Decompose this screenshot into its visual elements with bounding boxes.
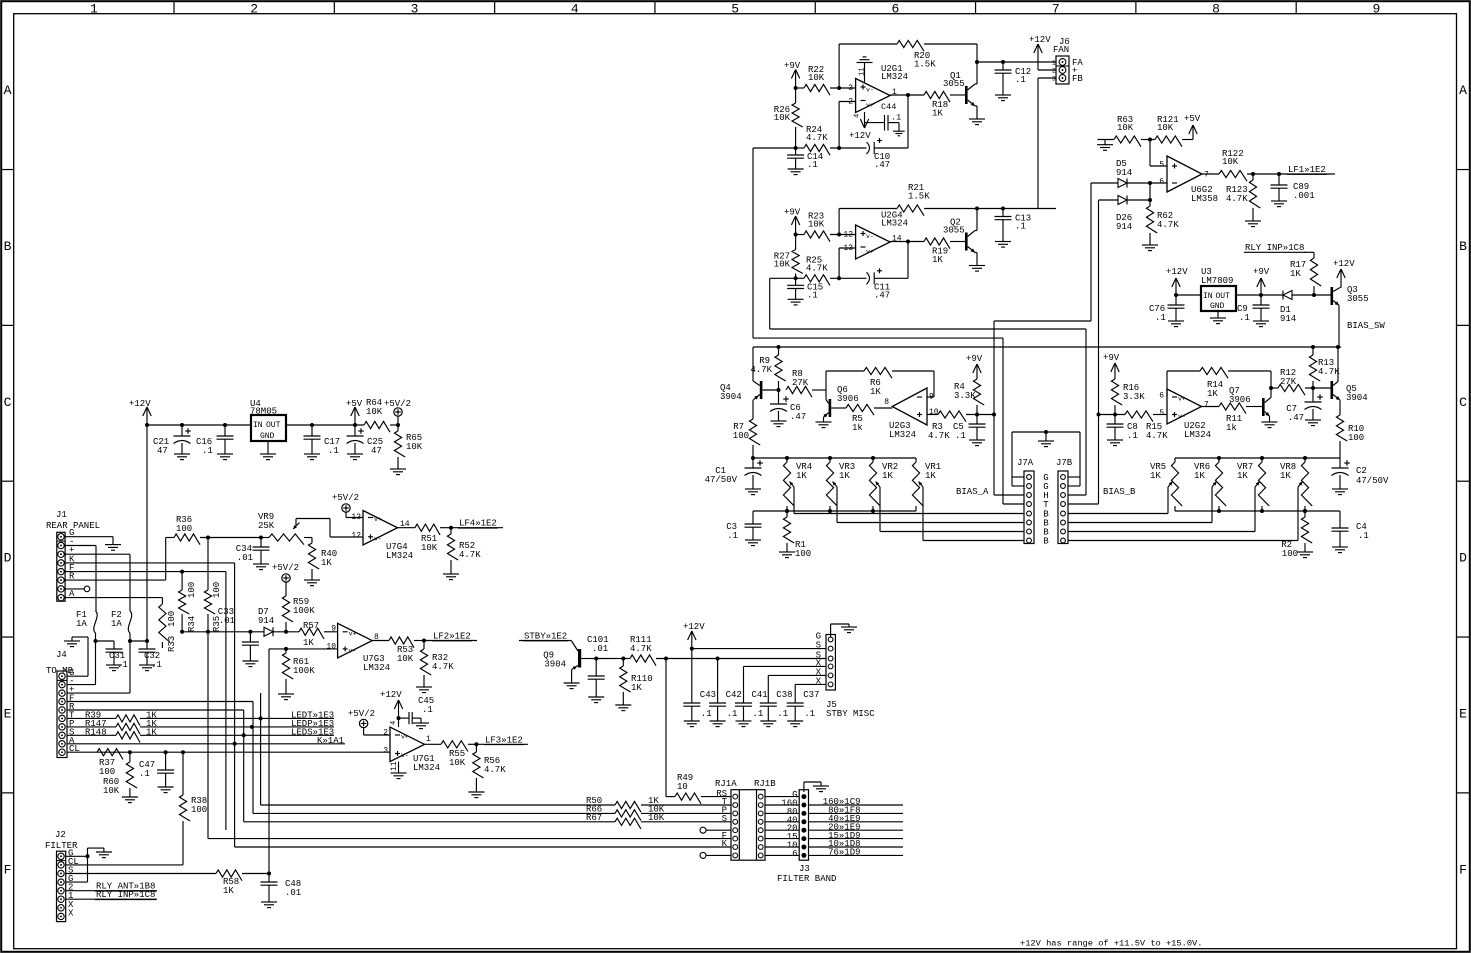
svg-text:+12V: +12V [849,131,871,141]
svg-text:47/50V: 47/50V [1356,476,1389,486]
svg-text:100: 100 [176,524,192,534]
svg-text:.1: .1 [1155,313,1166,323]
svg-text:5: 5 [1159,409,1164,418]
svg-text:12: 12 [351,532,361,541]
svg-text:3055: 3055 [943,226,965,236]
svg-text:47/50V: 47/50V [705,475,738,485]
svg-text:.1: .1 [727,531,738,541]
svg-text:J7A: J7A [1017,458,1034,468]
svg-text:78M05: 78M05 [250,407,277,417]
svg-text:100: 100 [1282,549,1298,559]
svg-text:914: 914 [1280,314,1296,324]
svg-text:1K: 1K [1150,471,1161,481]
svg-text:10K: 10K [397,654,414,664]
svg-text:.1: .1 [202,446,213,456]
svg-text:1K: 1K [1207,389,1218,399]
svg-text:3.3K: 3.3K [954,391,976,401]
svg-text:6: 6 [892,1,900,16]
svg-text:100K: 100K [293,666,315,676]
svg-text:.01: .01 [592,644,608,654]
svg-text:25K: 25K [258,521,275,531]
svg-text:+9V: +9V [966,354,983,364]
svg-text:K»1A1: K»1A1 [317,736,344,746]
svg-text:STBY MISC: STBY MISC [826,709,875,719]
svg-text:+12V: +12V [1029,35,1051,45]
svg-text:C2: C2 [1356,466,1367,476]
svg-text:.1: .1 [777,709,788,719]
svg-text:v-: v- [866,87,874,94]
svg-text:1K: 1K [631,683,642,693]
svg-text:10K: 10K [808,220,825,230]
svg-text:J7B: J7B [1056,458,1073,468]
svg-text:.47: .47 [874,160,890,170]
svg-text:1A: 1A [76,619,87,629]
svg-text:3906: 3906 [837,394,859,404]
svg-text:1: 1 [426,735,431,744]
svg-text:+5V/2: +5V/2 [348,709,375,719]
svg-text:R33: R33 [167,636,177,652]
svg-text:1K: 1K [870,387,881,397]
svg-text:10K: 10K [366,407,383,417]
svg-text:4: 4 [390,721,398,725]
svg-text:.1: .1 [727,709,738,719]
svg-text:B: B [1459,239,1467,254]
svg-text:4.7K: 4.7K [1146,431,1168,441]
svg-text:IN: IN [253,421,263,430]
svg-text:10K: 10K [1222,157,1239,167]
svg-text:C38: C38 [776,690,792,700]
svg-text:6: 6 [1159,391,1164,400]
svg-text:GND: GND [260,432,275,441]
svg-text:100: 100 [167,611,177,627]
svg-text:1.5K: 1.5K [914,60,936,70]
svg-text:BIAS_SW: BIAS_SW [1347,321,1385,331]
svg-text:1K: 1K [796,471,807,481]
svg-text:100: 100 [187,582,197,598]
svg-text:D: D [1459,551,1467,566]
svg-text:4.7K: 4.7K [630,644,652,654]
svg-text:3904: 3904 [544,660,566,670]
svg-text:X: X [816,676,822,686]
svg-text:1K: 1K [839,471,850,481]
svg-text:1k: 1k [1226,423,1237,433]
svg-text:v+: v+ [374,516,382,523]
svg-text:LM324: LM324 [881,72,908,82]
svg-text:1K: 1K [1280,471,1291,481]
svg-text:4.7K: 4.7K [1157,220,1179,230]
svg-text:100K: 100K [293,606,315,616]
svg-text:R148: R148 [85,727,107,737]
svg-text:FAN: FAN [1053,45,1069,55]
svg-text:1: 1 [1052,60,1056,67]
svg-text:FILTER BAND: FILTER BAND [777,874,836,884]
svg-text:3904: 3904 [1346,393,1368,403]
svg-text:.1: .1 [804,709,815,719]
svg-text:.1: .1 [117,660,128,670]
svg-text:10K: 10K [103,786,120,796]
svg-text:.1: .1 [807,290,818,300]
svg-text:.1: .1 [955,431,966,441]
svg-text:F: F [1459,862,1467,877]
svg-text:10K: 10K [1157,123,1174,133]
svg-text:.1: .1 [1127,431,1138,441]
svg-text:LM324: LM324 [881,219,908,229]
svg-text:+12V has range of +11.5V to +1: +12V has range of +11.5V to +15.0V. [1020,939,1202,949]
svg-text:5: 5 [731,1,739,16]
svg-text:.1: .1 [891,113,901,123]
svg-text:D: D [4,551,12,566]
svg-text:v+: v+ [866,249,874,256]
svg-text:.1: .1 [328,446,339,456]
svg-text:.47: .47 [874,290,890,300]
svg-text:LM324: LM324 [889,430,916,440]
svg-text:27K: 27K [792,378,809,388]
svg-text:3904: 3904 [720,392,742,402]
svg-text:C: C [1459,395,1467,410]
svg-text:10: 10 [929,408,939,417]
svg-text:v+: v+ [349,630,357,637]
svg-text:3.3K: 3.3K [1123,392,1145,402]
svg-text:J1: J1 [56,510,67,520]
svg-text:C43: C43 [700,690,716,700]
svg-text:4.7K: 4.7K [928,431,950,441]
svg-text:BIAS_A: BIAS_A [956,487,989,497]
svg-text:1: 1 [892,88,897,97]
svg-text:.1: .1 [1358,531,1369,541]
svg-text:7: 7 [1204,171,1209,180]
svg-text:10K: 10K [774,260,791,270]
svg-text:10K: 10K [421,543,438,553]
svg-text:7: 7 [1204,401,1209,410]
svg-text:LF2»1E2: LF2»1E2 [433,632,471,642]
svg-text:4.7K: 4.7K [806,263,828,273]
svg-text:100: 100 [795,549,811,559]
svg-text:12: 12 [843,231,853,240]
svg-text:J2: J2 [55,830,66,840]
svg-text:914: 914 [1116,222,1132,232]
svg-text:2: 2 [1052,68,1056,75]
svg-text:11: 11 [859,68,867,76]
svg-text:1K: 1K [932,109,943,119]
svg-text:+9V: +9V [784,61,801,71]
svg-text:LM324: LM324 [1184,430,1211,440]
svg-text:v+: v+ [401,734,409,741]
svg-text:4.7K: 4.7K [750,365,772,375]
svg-text:10K: 10K [774,113,791,123]
svg-text:47: 47 [157,446,168,456]
svg-text:.47: .47 [1288,413,1304,423]
svg-text:RLY INP»1C8: RLY INP»1C8 [1245,243,1304,253]
svg-text:RJ1A: RJ1A [715,779,737,789]
svg-text:v-: v- [401,752,409,759]
svg-text:4.7K: 4.7K [484,765,506,775]
svg-text:J3: J3 [799,864,810,874]
svg-text:B: B [4,239,12,254]
svg-text:914: 914 [258,616,274,626]
svg-text:C37: C37 [803,690,819,700]
svg-text:1K: 1K [925,471,936,481]
svg-text:100: 100 [191,805,207,815]
svg-text:1K: 1K [1290,269,1301,279]
svg-text:.47: .47 [790,412,806,422]
svg-text:3: 3 [383,747,388,756]
svg-text:2: 2 [383,729,388,738]
svg-text:3906: 3906 [1229,395,1251,405]
svg-text:S: S [816,641,821,651]
svg-text:1A: 1A [111,619,122,629]
svg-text:914: 914 [1116,168,1132,178]
svg-text:+9V: +9V [784,208,801,218]
svg-text:1K: 1K [932,255,943,265]
svg-text:.01: .01 [285,888,301,898]
svg-text:v+: v+ [866,102,874,109]
svg-text:LM7809: LM7809 [1201,276,1233,286]
svg-text:.001: .001 [1293,191,1315,201]
svg-text:4: 4 [854,114,862,118]
svg-text:OUT: OUT [266,421,281,430]
svg-text:14: 14 [892,235,902,244]
svg-text:.1: .1 [422,705,433,715]
svg-text:F: F [4,862,12,877]
svg-text:9: 9 [929,393,934,402]
svg-text:10K: 10K [1117,123,1134,133]
svg-text:+12V: +12V [683,622,705,632]
svg-text:10K: 10K [406,442,423,452]
svg-text:3055: 3055 [943,79,965,89]
svg-text:4.7K: 4.7K [1318,367,1340,377]
svg-text:+12V: +12V [380,690,402,700]
svg-text:.01: .01 [237,553,253,563]
svg-text:+5V/2: +5V/2 [332,493,359,503]
svg-text:v-: v- [866,233,874,240]
svg-text:LM324: LM324 [413,763,440,773]
svg-text:10: 10 [326,642,336,651]
svg-text:B: B [1043,537,1049,547]
svg-text:C: C [4,395,12,410]
svg-text:.1: .1 [151,660,162,670]
svg-text:3055: 3055 [1347,294,1369,304]
svg-text:E: E [4,706,12,721]
svg-text:4.7K: 4.7K [1226,194,1248,204]
svg-text:10: 10 [677,782,688,792]
svg-text:C41: C41 [752,690,768,700]
svg-text:T: T [1043,500,1049,510]
svg-text:6: 6 [1159,178,1164,187]
svg-text:3: 3 [848,84,853,93]
svg-text:GND: GND [1210,302,1225,311]
svg-text:R57: R57 [303,621,319,631]
svg-text:76»1D9: 76»1D9 [828,848,860,858]
svg-text:.1: .1 [753,709,764,719]
svg-text:11: 11 [390,761,399,771]
svg-text:J4: J4 [56,650,67,660]
svg-text:BIAS_B: BIAS_B [1103,487,1136,497]
svg-text:1K: 1K [882,471,893,481]
svg-text:4.7K: 4.7K [806,133,828,143]
svg-text:LF4»1E2: LF4»1E2 [459,519,497,529]
svg-text:E: E [1459,706,1467,721]
svg-text:47: 47 [371,446,382,456]
svg-text:10K: 10K [449,758,466,768]
svg-text:1K: 1K [303,638,314,648]
svg-text:v-: v- [1178,413,1186,420]
svg-text:v-: v- [374,536,382,543]
svg-text:LM358: LM358 [1191,194,1218,204]
svg-text:A: A [4,83,12,98]
svg-text:LM324: LM324 [363,663,390,673]
svg-text:3: 3 [1052,76,1056,83]
svg-text:+12V: +12V [129,399,151,409]
svg-text:.1: .1 [1015,222,1026,232]
svg-text:6: 6 [792,849,797,859]
svg-text:1K: 1K [321,558,332,568]
svg-text:1.5K: 1.5K [908,192,930,202]
svg-text:.1: .1 [1015,75,1026,85]
svg-text:RJ1B: RJ1B [754,779,776,789]
svg-text:1K: 1K [223,886,234,896]
svg-text:+9V: +9V [1253,267,1270,277]
svg-text:v+: v+ [1178,396,1186,403]
svg-text:.1: .1 [701,709,712,719]
svg-text:4.7K: 4.7K [459,550,481,560]
svg-text:2: 2 [250,1,258,16]
svg-text:A: A [1459,83,1467,98]
svg-text:+9V: +9V [1103,353,1120,363]
svg-text:9: 9 [1372,1,1380,16]
svg-text:3: 3 [411,1,419,16]
svg-text:X: X [68,908,74,918]
svg-text:+12V: +12V [1333,259,1355,269]
svg-text:8: 8 [1212,1,1220,16]
svg-text:LM324: LM324 [386,551,413,561]
svg-text:4.7K: 4.7K [432,662,454,672]
svg-text:8: 8 [884,398,889,407]
svg-text:100: 100 [1348,433,1364,443]
svg-text:S: S [722,814,727,824]
svg-text:1K: 1K [1194,471,1205,481]
svg-text:.1: .1 [139,769,150,779]
svg-text:100: 100 [733,431,749,441]
svg-text:10K: 10K [648,813,665,823]
svg-text:K: K [722,839,728,849]
svg-text:5: 5 [1159,161,1164,170]
svg-text:2: 2 [848,98,853,107]
svg-text:1K: 1K [146,727,157,737]
svg-text:13: 13 [843,244,853,253]
svg-text:7: 7 [1052,1,1060,16]
svg-text:100: 100 [212,582,222,598]
svg-text:9: 9 [331,625,336,634]
svg-text:1: 1 [90,1,98,16]
svg-text:C42: C42 [726,690,742,700]
svg-text:.1: .1 [807,160,818,170]
svg-text:LF3»1E2: LF3»1E2 [485,735,523,745]
svg-text:RLY INP»1C8: RLY INP»1C8 [96,890,155,900]
svg-text:v-: v- [349,647,357,654]
svg-text:1k: 1k [852,423,863,433]
svg-text:+5V/2: +5V/2 [272,563,299,573]
svg-text:FB: FB [1072,74,1083,84]
svg-text:13: 13 [351,513,361,522]
svg-text:R67: R67 [586,813,602,823]
svg-text:R34: R34 [187,616,197,632]
svg-text:100: 100 [99,767,115,777]
svg-text:10K: 10K [808,73,825,83]
svg-text:IN: IN [1203,292,1213,301]
svg-text:.01: .01 [219,616,235,626]
svg-text:27K: 27K [1280,377,1297,387]
svg-text:LF1»1E2: LF1»1E2 [1288,165,1326,175]
svg-text:+12V: +12V [1166,267,1188,277]
svg-text:C44: C44 [881,102,896,112]
svg-text:1K: 1K [1237,471,1248,481]
svg-text:OUT: OUT [1216,292,1231,301]
svg-text:.1: .1 [1239,313,1250,323]
svg-text:4: 4 [571,1,579,16]
svg-text:+5V: +5V [1184,114,1201,124]
